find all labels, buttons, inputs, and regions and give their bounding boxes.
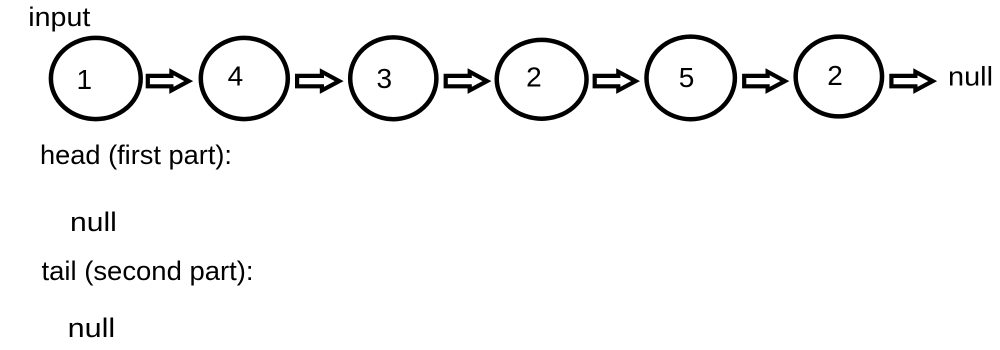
arrow A1 — [148, 72, 189, 91]
node N6 circle — [796, 37, 882, 117]
svg-text:null: null — [68, 313, 116, 343]
svg-text:2: 2 — [827, 60, 843, 91]
arrow A3 — [446, 72, 487, 91]
arrow A6 — [891, 72, 932, 91]
svg-text:head (first part):: head (first part): — [40, 140, 232, 170]
node N4 circle — [497, 40, 587, 119]
svg-text:1: 1 — [77, 64, 93, 95]
node N1 circle — [51, 38, 141, 119]
svg-text:4: 4 — [228, 61, 244, 92]
svg-text:null: null — [948, 62, 993, 92]
svg-text:5: 5 — [679, 62, 695, 93]
arrow A2 — [297, 72, 339, 91]
svg-text:null: null — [70, 207, 117, 237]
svg-text:tail (second part):: tail (second part): — [42, 256, 254, 286]
node N2 circle — [201, 38, 288, 119]
svg-text:2: 2 — [526, 61, 542, 92]
svg-text:input: input — [28, 2, 91, 32]
svg-text:3: 3 — [377, 63, 393, 94]
node N3 circle — [350, 37, 436, 119]
node N5 circle — [647, 37, 735, 120]
arrow A4 — [595, 72, 636, 91]
arrow A5 — [744, 72, 785, 91]
